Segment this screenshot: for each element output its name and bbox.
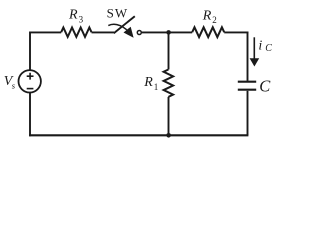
wire top-left horizontal — [30, 31, 61, 33]
svg-text:C: C — [265, 43, 272, 54]
svg-text:C: C — [259, 76, 271, 95]
resistor R3 — [61, 28, 91, 37]
svg-text:3: 3 — [79, 14, 84, 24]
resistor R1 — [164, 70, 174, 97]
node B junction dot (bottom of R1 branch) — [166, 133, 171, 138]
wire right vertical upper — [247, 32, 249, 81]
wire middle vertical lower — [168, 97, 170, 135]
svg-text:i: i — [258, 38, 262, 53]
switch SW blade — [114, 16, 135, 33]
switch SW motion arc — [108, 24, 127, 30]
wire R3 to switch — [92, 31, 115, 33]
wire left vertical upper — [29, 32, 31, 71]
switch SW arrowhead — [124, 27, 134, 38]
resistor R2 — [192, 27, 224, 37]
svg-text:s: s — [12, 81, 16, 91]
svg-text:R: R — [68, 8, 78, 23]
wire R2 to top-right corner — [224, 31, 248, 33]
svg-text:2: 2 — [212, 15, 217, 25]
voltage source minus sign — [27, 88, 34, 90]
wire bottom horizontal — [29, 134, 248, 136]
voltage source Vs circle — [19, 70, 41, 92]
wire right vertical lower — [247, 91, 249, 136]
node A junction dot — [166, 30, 171, 35]
current arrow iC head — [250, 58, 260, 66]
capacitor C top plate — [238, 81, 256, 83]
voltage source plus sign — [27, 73, 34, 80]
switch open terminal circle — [137, 31, 141, 35]
wire middle vertical upper — [168, 32, 170, 69]
capacitor C bottom plate — [238, 89, 256, 91]
svg-text:R: R — [143, 75, 153, 90]
current arrow iC shaft — [253, 37, 255, 60]
svg-text:SW: SW — [107, 6, 129, 21]
svg-text:1: 1 — [154, 82, 159, 92]
svg-text:R: R — [202, 9, 212, 24]
wire switch to node A — [142, 31, 192, 33]
wire left vertical lower — [29, 93, 31, 137]
